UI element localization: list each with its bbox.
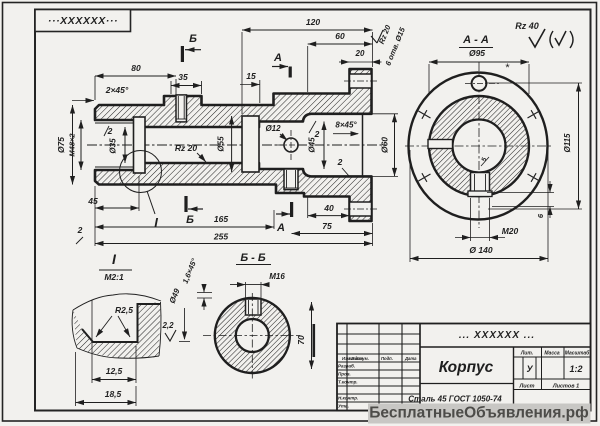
svg-text:80: 80 bbox=[131, 63, 141, 73]
detail I material hatched bbox=[73, 302, 161, 358]
dim 255 bbox=[95, 243, 373, 245]
flange bolt hole O15 bottom (section) bbox=[350, 202, 372, 216]
dim 40 bbox=[307, 198, 309, 219]
M20 tapped hole in bottom boss bbox=[284, 169, 298, 190]
main view: lower section material (hatched) bbox=[95, 163, 372, 221]
dim O140 bbox=[409, 150, 411, 262]
detail I callout leader bbox=[147, 191, 155, 214]
svg-text:R2,5: R2,5 bbox=[115, 305, 133, 315]
B-B inner hole O35 bbox=[236, 319, 269, 352]
svg-text:Листов 1: Листов 1 bbox=[552, 384, 579, 390]
A-A hub ring O95 hatched bbox=[429, 96, 529, 196]
svg-text:Ø45: Ø45 bbox=[308, 137, 317, 153]
svg-text:Rz 40: Rz 40 bbox=[515, 21, 539, 31]
detail I break line left bbox=[72, 310, 77, 348]
svg-text:БесплатныеОбъявления.рф: БесплатныеОбъявления.рф bbox=[369, 405, 588, 422]
svg-text:Подп.: Подп. bbox=[381, 356, 393, 361]
svg-text:А - А: А - А bbox=[462, 34, 489, 46]
A-A M20 hole slot bottom bbox=[471, 173, 490, 197]
svg-text:Дата: Дата bbox=[404, 356, 417, 361]
svg-text:Сталь 45 ГОСТ 1050-74: Сталь 45 ГОСТ 1050-74 bbox=[408, 395, 502, 404]
detail I break line top bbox=[73, 294, 161, 310]
svg-text:40: 40 bbox=[323, 203, 334, 213]
svg-text:70: 70 bbox=[296, 335, 306, 345]
ring groove 2 O55 (x242-259) bbox=[242, 116, 259, 172]
dim 18.5 bbox=[75, 352, 77, 406]
section mark A top bbox=[289, 67, 292, 78]
dim O75 bbox=[72, 105, 74, 185]
svg-text:12,5: 12,5 bbox=[106, 366, 123, 376]
svg-text:Б: Б bbox=[189, 33, 197, 45]
A-A bolt hole O15 top bbox=[472, 76, 487, 91]
counterbore bottom edge in flange bbox=[362, 114, 364, 177]
svg-text:255: 255 bbox=[213, 232, 228, 242]
dim O35 bbox=[124, 127, 126, 163]
svg-text:35: 35 bbox=[178, 72, 188, 82]
svg-text:120: 120 bbox=[306, 17, 320, 27]
dim 80 ext right bbox=[175, 79, 177, 101]
B-B centerlines bbox=[203, 335, 300, 337]
detail I callout circle bbox=[120, 151, 162, 193]
A-A bolt hole position crosses bbox=[418, 174, 430, 181]
thread-relief groove 1 (x134-145) bbox=[134, 117, 146, 173]
dim 60 bbox=[307, 46, 309, 92]
bolt hole bottom centerline bbox=[344, 208, 377, 210]
detail I groove profile bbox=[82, 304, 160, 342]
O12 cross-drilled hole bbox=[284, 138, 298, 152]
svg-text:2: 2 bbox=[77, 225, 83, 235]
dim 12.5 bbox=[91, 300, 93, 383]
dim 20 flange width bbox=[350, 61, 372, 63]
dim O115 bbox=[485, 82, 582, 84]
svg-text:Ø55: Ø55 bbox=[217, 136, 226, 152]
title block grid left columns bbox=[337, 324, 591, 411]
A-A centerlines bbox=[405, 145, 553, 147]
svg-text:I: I bbox=[154, 215, 158, 230]
main axis centerline bbox=[87, 144, 386, 146]
svg-text:Б - Б: Б - Б bbox=[240, 252, 266, 264]
svg-text:М2:1: М2:1 bbox=[104, 272, 124, 282]
svg-text:···XXXXXX···: ···XXXXXX··· bbox=[48, 15, 118, 27]
svg-text:У: У bbox=[526, 364, 533, 374]
flange bolt hole O15 top (section) bbox=[350, 74, 372, 88]
svg-text:45: 45 bbox=[87, 196, 98, 206]
main view: upper section material (hatched) bbox=[95, 69, 372, 127]
svg-text:А: А bbox=[276, 222, 285, 234]
M48x2 thread lines bbox=[95, 122, 134, 124]
svg-text:Ø75: Ø75 bbox=[56, 137, 66, 153]
M16 tapped hole in top boss bbox=[176, 95, 187, 122]
svg-text:Масштаб: Масштаб bbox=[565, 350, 590, 357]
dim O60 bbox=[373, 113, 399, 115]
dim 165 bbox=[95, 226, 274, 228]
svg-text:Корпус: Корпус bbox=[439, 359, 494, 376]
svg-text:Ø35: Ø35 bbox=[109, 138, 118, 154]
dim 35 boss bbox=[170, 81, 172, 94]
dim 6 keyway depth bbox=[487, 192, 554, 194]
B-B M16 keyway slot bbox=[246, 299, 262, 315]
svg-text:2×45°: 2×45° bbox=[105, 85, 129, 95]
dim O55 bbox=[231, 116, 233, 172]
svg-text:Лит.: Лит. bbox=[520, 351, 533, 357]
svg-text:2,2: 2,2 bbox=[161, 321, 174, 330]
dim 120 bbox=[241, 32, 243, 114]
bolt hole top centerline bbox=[344, 80, 377, 82]
dim 80 bbox=[94, 76, 96, 100]
svg-text:2: 2 bbox=[314, 129, 320, 139]
svg-text:2: 2 bbox=[337, 157, 343, 167]
title block grid right part bbox=[419, 324, 421, 411]
dim 45 bbox=[138, 176, 140, 211]
dim O45 bbox=[323, 122, 325, 170]
svg-text:8×45°: 8×45° bbox=[335, 121, 357, 130]
svg-text:Ø95: Ø95 bbox=[469, 48, 485, 58]
svg-text:Масса: Масса bbox=[544, 351, 560, 357]
svg-text:Б: Б bbox=[186, 214, 194, 226]
svg-text:Rz 20: Rz 20 bbox=[175, 143, 197, 153]
svg-text:Разраб.: Разраб. bbox=[338, 363, 355, 369]
dim 75 right bbox=[292, 233, 373, 235]
svg-text:*: * bbox=[505, 62, 510, 74]
watermark band bbox=[368, 404, 591, 424]
svg-text:М48×2: М48×2 bbox=[68, 133, 77, 157]
dim 70 bbox=[311, 302, 313, 369]
A-A central hole O60 bbox=[453, 120, 506, 173]
B-B outer circle hatched bbox=[215, 298, 290, 373]
section mark B bottom bbox=[184, 196, 187, 212]
section mark B top bbox=[181, 46, 184, 62]
svg-text:60: 60 bbox=[335, 31, 345, 41]
svg-text:Ø12: Ø12 bbox=[265, 124, 281, 133]
svg-text:Пров.: Пров. bbox=[338, 372, 351, 377]
svg-text:2: 2 bbox=[107, 126, 113, 136]
detail I break line bottom bbox=[77, 348, 159, 358]
svg-text:М16: М16 bbox=[269, 272, 285, 281]
svg-text:Ø 140: Ø 140 bbox=[469, 245, 492, 255]
A-A flange outer circle O140 bbox=[409, 73, 548, 220]
svg-text:1:2: 1:2 bbox=[569, 364, 582, 374]
detail I break line right bbox=[159, 302, 161, 356]
svg-text:Ø60: Ø60 bbox=[380, 137, 390, 153]
svg-text:15: 15 bbox=[246, 71, 256, 81]
svg-text:Ø115: Ø115 bbox=[563, 133, 572, 153]
dim M20 bbox=[470, 198, 472, 241]
dim 15 bbox=[259, 80, 261, 103]
svg-text:№ докум.: № докум. bbox=[349, 356, 369, 361]
svg-text:Т.контр.: Т.контр. bbox=[338, 380, 358, 385]
A-A keyway slot left in ring bbox=[428, 140, 453, 149]
svg-text:165: 165 bbox=[214, 214, 228, 224]
svg-text:18,5: 18,5 bbox=[105, 389, 122, 399]
svg-text:А: А bbox=[273, 52, 282, 64]
svg-text:Лист: Лист bbox=[518, 384, 534, 390]
svg-text:Утв.: Утв. bbox=[338, 404, 349, 409]
dim M48x2 bbox=[80, 120, 82, 170]
svg-text:20: 20 bbox=[355, 49, 365, 58]
svg-text:75: 75 bbox=[322, 221, 332, 231]
svg-text:М20: М20 bbox=[502, 226, 519, 236]
dim O95 bbox=[428, 64, 430, 94]
svg-text:... XXXXXX ...: ... XXXXXX ... bbox=[459, 330, 535, 341]
roughness Rz20 6otv O15 at flange bbox=[371, 36, 377, 43]
svg-text:Н.контр.: Н.контр. bbox=[338, 396, 358, 401]
section mark A bottom bbox=[290, 202, 293, 217]
stamp box top-left bbox=[35, 10, 131, 32]
